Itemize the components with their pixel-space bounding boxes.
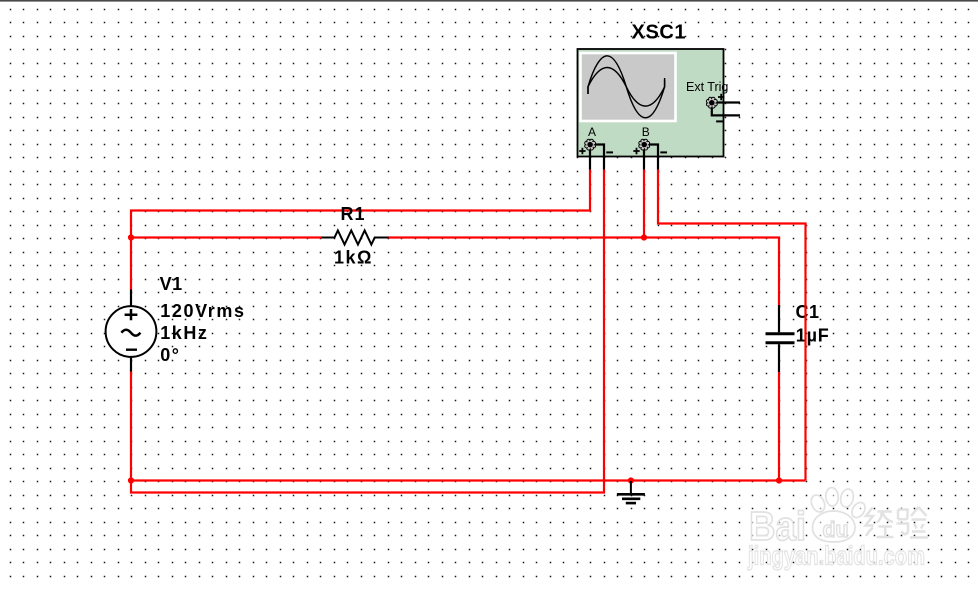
svg-text:1µF: 1µF	[796, 326, 830, 346]
scope pin stub A+	[589, 149, 591, 170]
svg-text:B: B	[642, 125, 650, 139]
junction B+ on node B	[641, 234, 647, 240]
junction V1/R1 node A	[128, 234, 134, 240]
scope pin stub B-	[650, 145, 659, 170]
svg-text:XSC1: XSC1	[632, 21, 687, 43]
polarity marks Ext Trig	[716, 94, 724, 122]
wire ground bus y=480.5	[131, 479, 806, 481]
connector socket B	[639, 139, 650, 150]
wire node B: R1 right lead to C1 top	[388, 238, 779, 306]
svg-text:du: du	[823, 517, 849, 542]
wire scope B- right and down to ground bus (drawn over C1 labels)	[658, 170, 806, 481]
wire scope B+ down to node B	[643, 170, 645, 238]
oscilloscope XSC1 body	[578, 49, 724, 157]
scope pin stub Ext Trig	[712, 103, 740, 116]
svg-text:V1: V1	[160, 274, 183, 294]
wire scope A- down, left along bottom y=492.5, up to V1-	[131, 170, 604, 493]
watermark baidu jingyan	[747, 487, 928, 570]
ground symbol	[617, 481, 645, 503]
wire C1 bottom to ground bus	[778, 372, 780, 481]
scope pin stub A-	[596, 145, 605, 170]
polarity marks B	[633, 148, 667, 154]
wire V1+ to node A top: up from V1, right at y=210.5, down from scope A+	[131, 170, 590, 291]
polarity marks A	[579, 148, 613, 154]
junction C1 bottom	[776, 477, 782, 483]
AC source V1	[106, 290, 157, 372]
svg-text:Ext Trig: Ext Trig	[686, 80, 728, 94]
wire node A: V1 junction to R1 left lead	[131, 236, 322, 238]
svg-text:0°: 0°	[160, 345, 180, 365]
connector socket Ext Trig	[706, 97, 717, 108]
svg-text:C1: C1	[796, 302, 820, 322]
svg-text:1kΩ: 1kΩ	[334, 247, 373, 267]
capacitor C1	[766, 305, 795, 372]
svg-text:120Vrms: 120Vrms	[160, 301, 245, 321]
oscilloscope screen	[581, 53, 676, 121]
junction bottom left	[128, 477, 134, 483]
svg-text:A: A	[588, 125, 596, 139]
resistor R1	[322, 231, 389, 245]
connector socket A	[585, 139, 596, 150]
scope trace channel B	[588, 68, 665, 107]
scope trace channel A	[588, 56, 665, 118]
scope pin stub B+	[643, 149, 645, 170]
svg-text:jingyan.baidu.com: jingyan.baidu.com	[747, 541, 925, 571]
svg-text:R1: R1	[341, 204, 366, 224]
svg-text:1kHz: 1kHz	[160, 323, 208, 343]
junction ground tap	[628, 477, 634, 483]
